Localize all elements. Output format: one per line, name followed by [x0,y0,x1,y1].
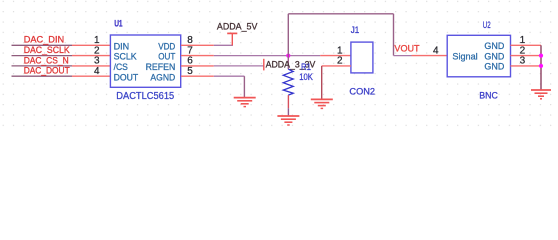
wire R1 to ground [287,108,289,116]
svg-text:GND: GND [484,62,504,72]
U1 pin 4 stub [72,75,110,77]
svg-text:10K: 10K [299,72,313,82]
wire DAC_DOUT [12,75,73,77]
svg-text:REFEN: REFEN [146,62,176,72]
svg-text:4: 4 [94,66,100,77]
U2 pin 3 stub [511,65,542,67]
U1 pin 7 stub [181,55,214,57]
U2 pin 4 stub [412,55,448,57]
wire VDD to ADDA_5V [214,44,233,46]
IC U1 body [110,35,180,87]
wire REFEN net [214,65,264,67]
wire top rail [288,13,393,15]
svg-text:DAC_DIN: DAC_DIN [24,35,64,45]
svg-text:CON2: CON2 [349,86,375,96]
ground AGND [234,98,256,107]
svg-text:5: 5 [187,66,193,77]
svg-text:DAC_DOUT: DAC_DOUT [24,66,70,76]
connector J1 body [351,42,373,73]
node junction U2 pin 2 [539,54,543,58]
wire AGND vertical [243,76,245,97]
node junction at R1 top [286,54,290,58]
svg-text:GND: GND [484,51,504,61]
U1 pin 5 stub [181,75,214,77]
svg-text:DIN: DIN [114,41,130,51]
power port ADDA_5V bar [227,32,237,34]
svg-text:ADDA_5V: ADDA_5V [217,22,258,32]
U1 pin 6 stub [181,65,214,67]
net label tick ADDA_3_3V [263,59,265,71]
U1 pin 3 stub [72,65,110,67]
resistor R1 [283,69,293,95]
svg-text:DACTLC5615: DACTLC5615 [116,91,174,102]
wire AGND net [214,75,245,77]
svg-text:DAC_CS_N: DAC_CS_N [24,55,69,65]
wire vertical at x393 [393,14,395,56]
U1 pin 2 stub [72,55,110,57]
svg-text:3: 3 [520,56,526,67]
svg-text:U2: U2 [483,20,491,30]
svg-text:/CS: /CS [114,62,128,72]
U2 pin 2 stub [511,55,542,57]
svg-text:J1: J1 [351,25,360,35]
U2 pin 1 stub [511,44,542,46]
J1 pin 1 stub [320,55,351,57]
connector U2 body [447,35,510,77]
svg-text:AGND: AGND [150,72,175,82]
svg-text:SCLK: SCLK [114,52,138,62]
wire VOUT row [394,55,412,57]
svg-text:GND: GND [484,41,504,51]
svg-text:OUT: OUT [158,52,175,62]
svg-text:VDD: VDD [158,41,175,51]
wire R1 bottom [287,95,289,108]
ground U2 [531,90,551,99]
wire DAC_DIN [12,44,73,46]
ground R1 [277,116,299,125]
wire vertical at x288 [287,14,289,69]
wire DAC_SCLK [12,55,73,57]
wire DAC_CS_N [12,65,73,67]
ground J1 [311,99,333,108]
svg-text:Signal: Signal [452,52,477,62]
U1 pin 1 stub [72,44,110,46]
svg-text:BNC: BNC [479,91,498,101]
wire OUT net [214,55,320,57]
J1 pin 2 stub [322,65,351,67]
svg-text:2: 2 [337,56,343,67]
wire U2 grounds vertical [540,45,542,89]
U1 pin 8 stub [181,44,214,46]
svg-text:U1: U1 [114,19,122,29]
wire J1 pin 2 to ground [321,66,323,99]
svg-text:4: 4 [433,45,439,56]
node junction U2 pin 3 [539,64,543,68]
svg-text:R1: R1 [301,62,311,72]
svg-text:DOUT: DOUT [114,72,139,82]
power port ADDA_5V stub [231,33,233,45]
svg-text:DAC_SCLK: DAC_SCLK [24,45,71,55]
svg-text:VOUT: VOUT [394,44,420,54]
